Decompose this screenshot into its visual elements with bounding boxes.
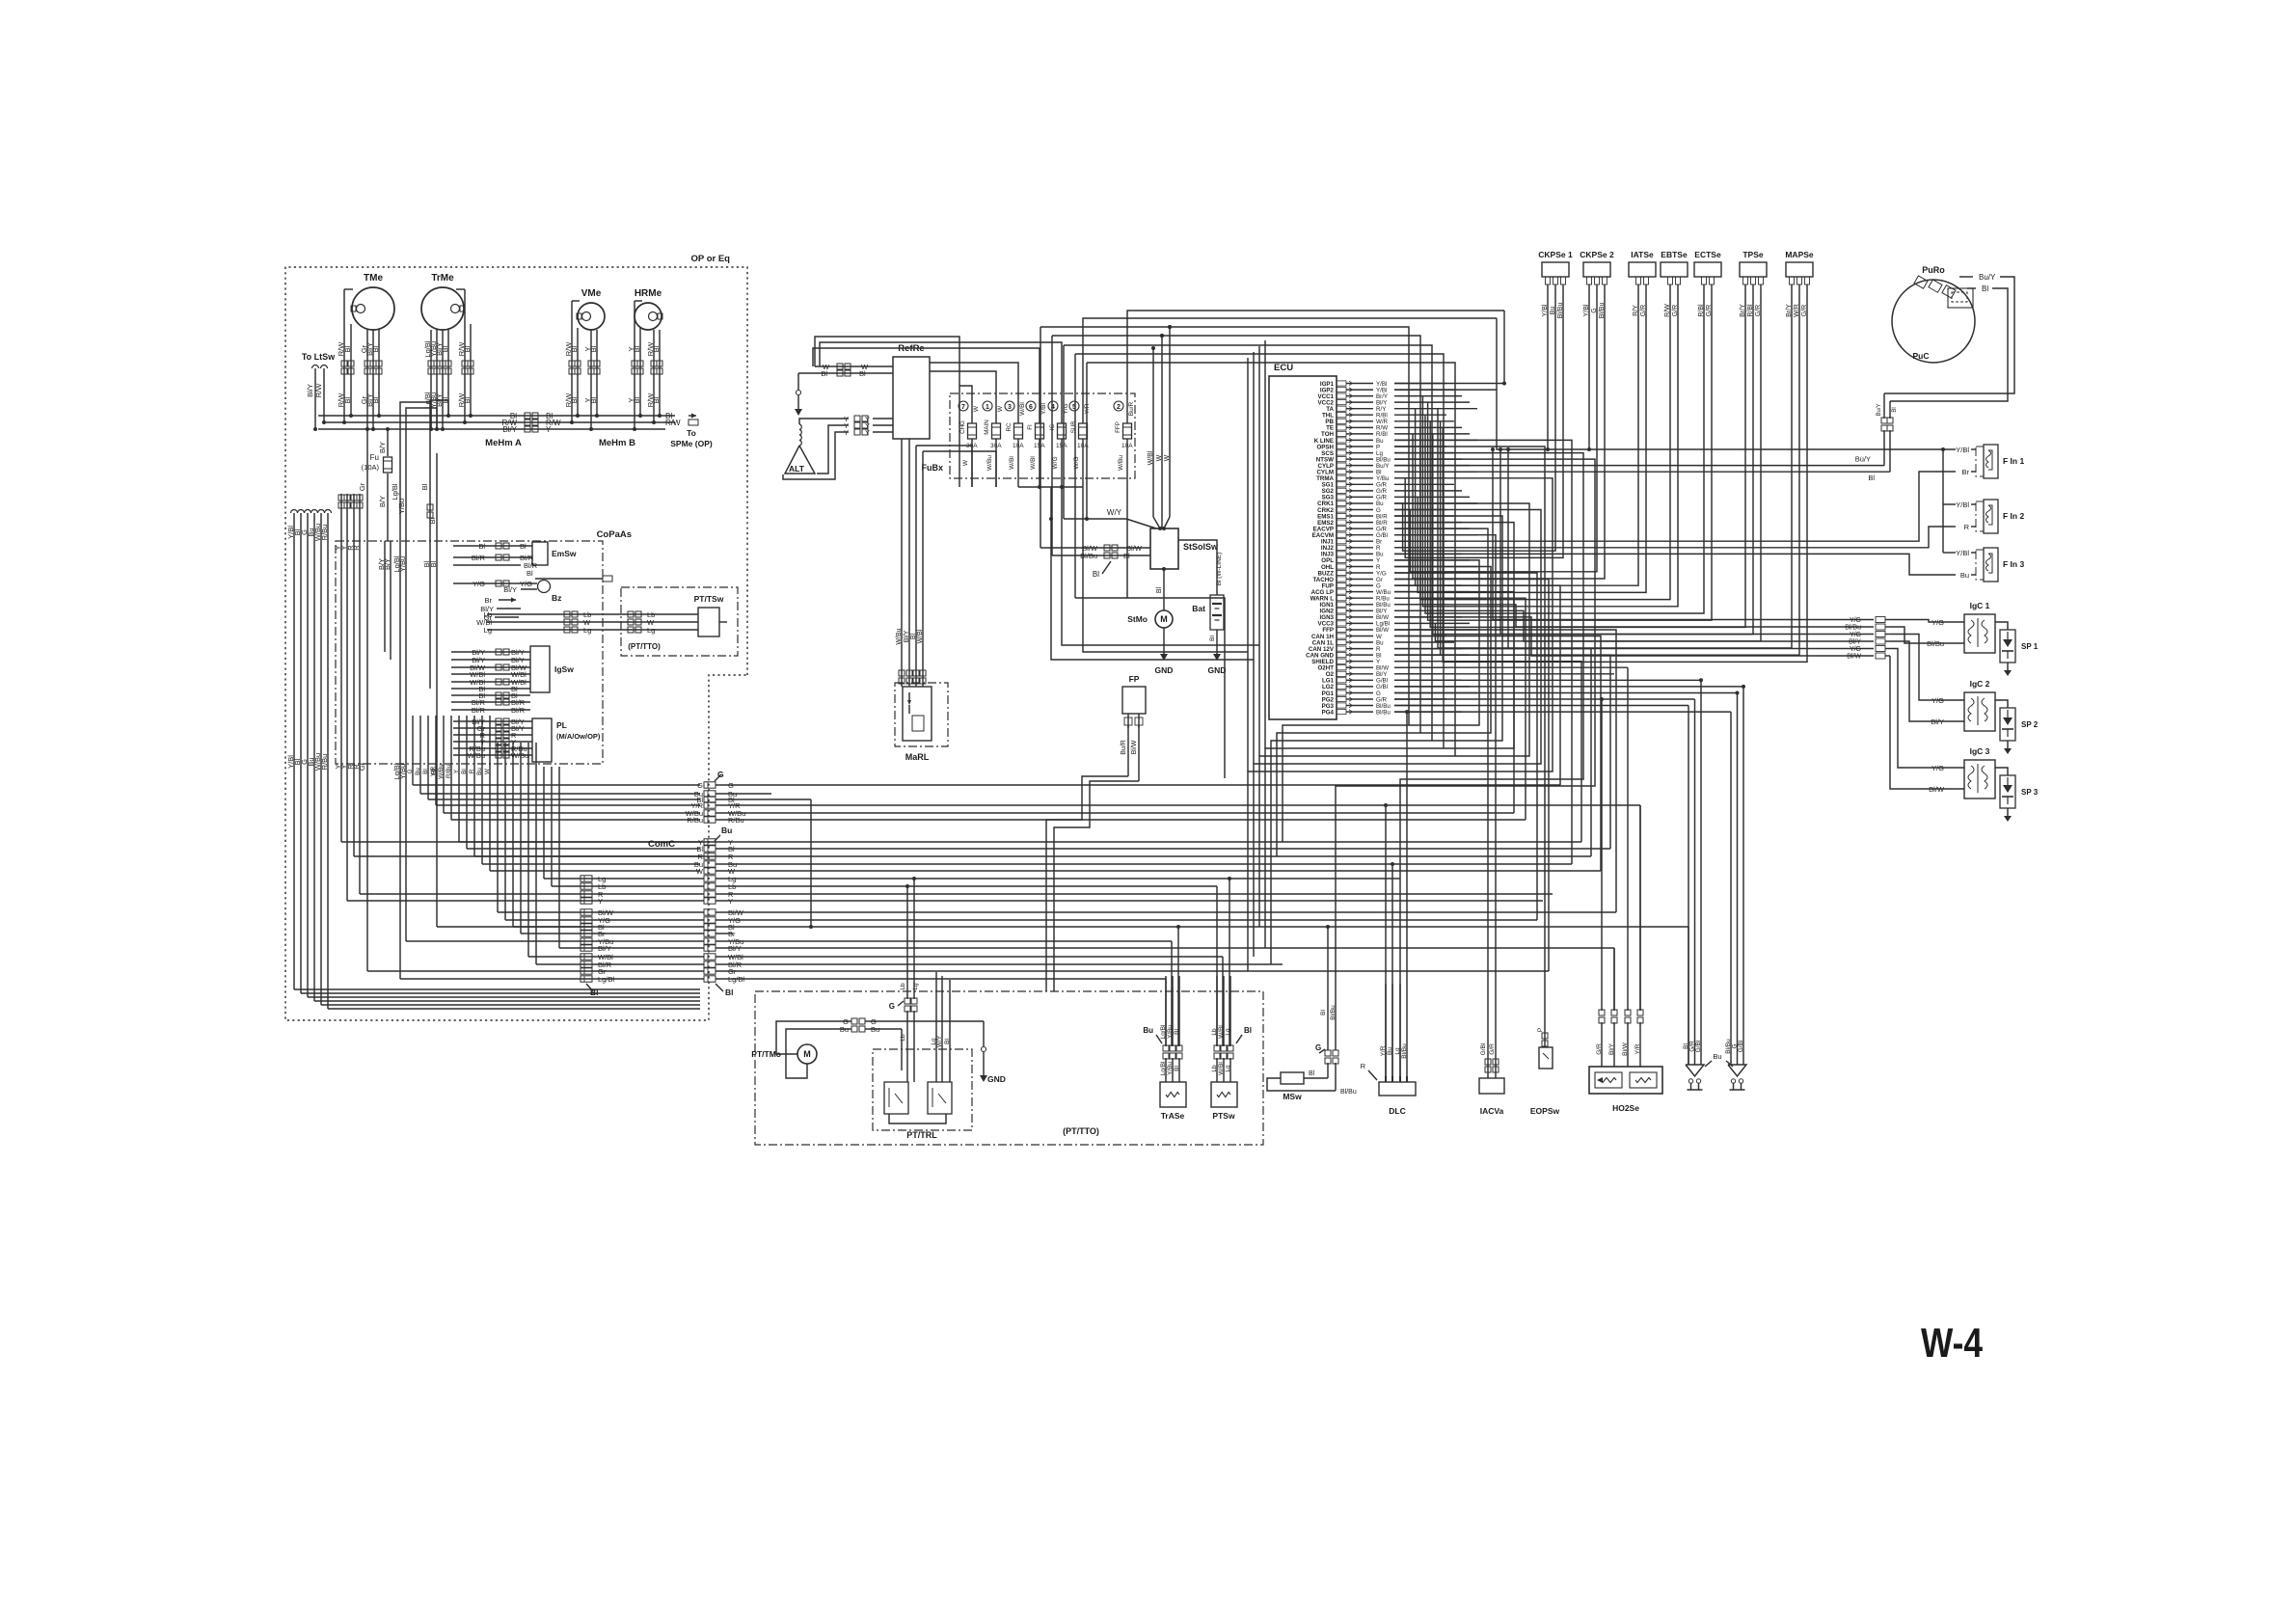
svg-text:R/Bu: R/Bu xyxy=(446,765,452,778)
svg-text:F In 2: F In 2 xyxy=(2003,511,2024,521)
svg-text:W: W xyxy=(997,405,1004,412)
svg-text:Bl: Bl xyxy=(441,345,449,352)
svg-text:Bl/Y: Bl/Y xyxy=(1849,639,1861,646)
svg-text:FI: FI xyxy=(1027,424,1034,430)
svg-text:W/Bu: W/Bu xyxy=(438,764,445,779)
svg-text:Bu/Y: Bu/Y xyxy=(1855,455,1871,464)
svg-text:Bl: Bl xyxy=(633,396,641,403)
svg-text:Bu: Bu xyxy=(1387,1047,1393,1055)
svg-text:Bu/Y: Bu/Y xyxy=(1877,403,1882,416)
svg-text:Bl: Bl xyxy=(944,1039,951,1044)
svg-text:(M/A/Ow/OP): (M/A/Ow/OP) xyxy=(556,732,601,741)
svg-text:W: W xyxy=(1156,454,1163,461)
svg-text:GND: GND xyxy=(1155,665,1174,675)
svg-text:Bl/Bu: Bl/Bu xyxy=(1376,709,1391,716)
svg-text:Lg: Lg xyxy=(484,626,492,635)
svg-text:(10A): (10A) xyxy=(362,463,380,472)
svg-text:R: R xyxy=(1964,523,1970,531)
svg-text:Bl: Bl xyxy=(429,560,438,567)
svg-text:TrASe: TrASe xyxy=(1161,1111,1185,1121)
svg-text:Bl/R: Bl/R xyxy=(511,706,526,715)
svg-text:G: G xyxy=(407,769,414,773)
svg-text:W/Bl: W/Bl xyxy=(1218,1025,1225,1039)
svg-text:MaRL: MaRL xyxy=(905,752,930,762)
svg-text:P: P xyxy=(1537,1028,1544,1032)
svg-text:EBTSe: EBTSe xyxy=(1661,250,1688,259)
svg-text:Bu: Bu xyxy=(1143,1026,1153,1035)
svg-text:EmSw: EmSw xyxy=(552,549,577,558)
svg-text:ECU: ECU xyxy=(1274,363,1293,373)
svg-text:W-4: W-4 xyxy=(1921,1320,1983,1367)
svg-text:Bl: Bl xyxy=(1123,552,1130,560)
svg-text:Bl: Bl xyxy=(570,396,579,403)
svg-text:StSolSw: StSolSw xyxy=(1183,542,1219,552)
svg-text:Bl: Bl xyxy=(520,542,527,551)
svg-text:Bl/R: Bl/R xyxy=(472,554,486,562)
svg-text:Bu: Bu xyxy=(415,768,421,775)
svg-text:W/Bu: W/Bu xyxy=(1118,455,1124,471)
svg-text:FFP: FFP xyxy=(1115,421,1121,433)
svg-text:G/Bl: G/Bl xyxy=(1695,1040,1702,1052)
svg-text:Lg: Lg xyxy=(647,626,655,635)
svg-text:M: M xyxy=(1160,614,1168,624)
svg-text:W: W xyxy=(484,769,491,774)
svg-text:ComC: ComC xyxy=(648,839,675,850)
svg-text:SP 1: SP 1 xyxy=(2021,642,2039,651)
svg-text:Bu/R: Bu/R xyxy=(1128,401,1135,416)
svg-text:SUB: SUB xyxy=(1070,421,1077,434)
svg-text:Bl: Bl xyxy=(859,369,866,378)
svg-text:M: M xyxy=(803,1049,811,1059)
svg-text:PT/TSw: PT/TSw xyxy=(694,594,724,604)
svg-text:Y/G: Y/G xyxy=(1850,632,1861,638)
svg-text:IgC 1: IgC 1 xyxy=(1970,601,1990,610)
svg-text:Fu: Fu xyxy=(370,453,379,462)
svg-text:Bl: Bl xyxy=(1868,474,1875,482)
svg-text:GND: GND xyxy=(1208,665,1227,675)
svg-text:Bl/Bu: Bl/Bu xyxy=(1330,1005,1337,1020)
svg-text:Bl: Bl xyxy=(422,769,429,774)
svg-text:Bl/Y: Bl/Y xyxy=(1608,1042,1615,1055)
svg-text:Bl: Bl xyxy=(463,396,472,403)
svg-text:W/G: W/G xyxy=(1073,457,1080,470)
svg-text:Bl: Bl xyxy=(420,483,429,490)
svg-text:G: G xyxy=(1315,1043,1321,1052)
svg-text:PTSw: PTSw xyxy=(1212,1111,1235,1121)
svg-text:W/Bu: W/Bu xyxy=(511,751,528,760)
svg-text:FuBx: FuBx xyxy=(922,463,944,473)
svg-text:Bl: Bl xyxy=(478,542,485,551)
svg-text:Lb: Lb xyxy=(900,983,906,990)
svg-text:IgC 3: IgC 3 xyxy=(1970,746,1990,756)
svg-text:(PT/TTO): (PT/TTO) xyxy=(1063,1126,1099,1136)
svg-text:Bl/Y: Bl/Y xyxy=(306,384,314,397)
svg-text:IACVa: IACVa xyxy=(1480,1106,1504,1116)
svg-text:Bl: Bl xyxy=(463,345,472,352)
svg-text:EOPSw: EOPSw xyxy=(1530,1106,1560,1116)
svg-text:Y/Bl: Y/Bl xyxy=(1956,501,1969,509)
svg-text:Bl/Y: Bl/Y xyxy=(502,425,517,434)
svg-text:PL: PL xyxy=(556,720,567,730)
svg-text:Y/R: Y/R xyxy=(1634,1043,1641,1054)
svg-text:Bl: Bl xyxy=(633,345,641,352)
svg-text:Y/Bu: Y/Bu xyxy=(397,499,406,514)
svg-text:OP or Eq: OP or Eq xyxy=(691,254,731,264)
svg-text:2: 2 xyxy=(1117,404,1121,411)
svg-text:ECTSe: ECTSe xyxy=(1694,250,1721,259)
svg-text:Bl: Bl xyxy=(589,396,598,403)
svg-text:PG4: PG4 xyxy=(1322,709,1335,716)
svg-text:Bl/W: Bl/W xyxy=(1131,740,1138,754)
svg-text:W/Bu: W/Bu xyxy=(986,455,993,471)
svg-text:B/Y: B/Y xyxy=(378,442,387,453)
svg-text:Gr: Gr xyxy=(358,482,366,491)
svg-text:TMe: TMe xyxy=(364,273,383,284)
svg-text:W/Bl: W/Bl xyxy=(1148,450,1154,465)
svg-text:W/Bl: W/Bl xyxy=(1030,456,1037,470)
svg-text:Y/Bu: Y/Bu xyxy=(1167,1025,1174,1039)
svg-text:Y/Bu: Y/Bu xyxy=(398,556,407,572)
svg-text:Lb: Lb xyxy=(1211,1028,1218,1036)
svg-text:R/W: R/W xyxy=(665,419,681,427)
svg-text:Bl: Bl xyxy=(1244,1026,1252,1035)
svg-text:Bl/Bu: Bl/Bu xyxy=(1401,1043,1408,1059)
svg-text:Y/G: Y/G xyxy=(473,580,485,588)
svg-text:To: To xyxy=(687,428,696,438)
svg-text:Bl/W: Bl/W xyxy=(1622,1042,1629,1056)
svg-text:Bl: Bl xyxy=(1209,636,1216,641)
svg-text:W/Bl: W/Bl xyxy=(917,629,924,643)
svg-text:Bl: Bl xyxy=(1982,284,1988,293)
svg-text:7: 7 xyxy=(961,404,965,411)
svg-text:3: 3 xyxy=(1008,404,1012,411)
svg-text:Bl/R: Bl/R xyxy=(472,706,486,715)
svg-text:Bl: Bl xyxy=(1309,1070,1315,1077)
svg-text:R: R xyxy=(1361,1062,1366,1070)
svg-text:Bl: Bl xyxy=(652,396,661,403)
svg-text:IgC 2: IgC 2 xyxy=(1970,679,1990,689)
svg-text:Lg: Lg xyxy=(583,626,591,635)
svg-text:Bl/Bu: Bl/Bu xyxy=(1845,625,1861,632)
svg-text:DLC: DLC xyxy=(1389,1106,1405,1116)
svg-text:W/Bu: W/Bu xyxy=(896,628,903,644)
svg-text:Bu/R: Bu/R xyxy=(1121,740,1127,755)
svg-text:Y: Y xyxy=(546,425,552,434)
svg-text:R/Bu: R/Bu xyxy=(320,754,329,771)
svg-text:Br: Br xyxy=(1962,468,1970,476)
svg-text:Bl/Y: Bl/Y xyxy=(904,630,910,642)
svg-text:Bu: Bu xyxy=(840,1025,849,1034)
svg-text:Bu: Bu xyxy=(1713,1052,1721,1061)
svg-text:R/Bu: R/Bu xyxy=(687,816,703,825)
svg-text:VMe: VMe xyxy=(581,288,602,299)
svg-text:Y/Bu: Y/Bu xyxy=(398,764,407,779)
svg-text:F In 1: F In 1 xyxy=(2003,456,2024,466)
svg-text:F In 3: F In 3 xyxy=(2003,559,2024,569)
svg-text:R/W: R/W xyxy=(314,383,323,398)
svg-text:ALT: ALT xyxy=(789,464,805,474)
svg-text:W: W xyxy=(1164,454,1171,461)
svg-text:Y/G: Y/G xyxy=(1850,646,1861,653)
svg-text:Bu: Bu xyxy=(871,1025,879,1034)
svg-text:G/R: G/R xyxy=(1489,1043,1496,1055)
svg-text:Lb: Lb xyxy=(900,1034,906,1042)
svg-text:Bl: Bl xyxy=(570,345,579,352)
svg-text:SPMe (OP): SPMe (OP) xyxy=(670,439,713,448)
svg-text:Bz: Bz xyxy=(552,593,561,603)
svg-text:Bat: Bat xyxy=(1192,604,1205,613)
svg-text:W/Bu: W/Bu xyxy=(468,751,485,760)
svg-text:Bl: Bl xyxy=(652,345,661,352)
svg-text:G: G xyxy=(889,1002,895,1011)
svg-text:Bl: Bl xyxy=(371,396,380,403)
svg-text:FP: FP xyxy=(1129,674,1140,684)
svg-text:Bl/Bu: Bl/Bu xyxy=(1340,1089,1357,1096)
svg-text:Lg/Bl: Lg/Bl xyxy=(1160,1024,1167,1039)
svg-text:W/G: W/G xyxy=(1052,457,1059,470)
svg-text:Bl: Bl xyxy=(343,396,352,403)
svg-text:Y/R: Y/R xyxy=(1380,1045,1387,1056)
svg-text:Bl: Bl xyxy=(343,345,352,352)
svg-text:G/Bl: G/Bl xyxy=(1738,1040,1744,1052)
svg-text:SP 2: SP 2 xyxy=(2021,720,2039,729)
svg-text:IATSe: IATSe xyxy=(1631,250,1654,259)
svg-text:Y: Y xyxy=(598,897,603,906)
svg-text:Bl/W: Bl/W xyxy=(1847,654,1861,661)
svg-text:TPSe: TPSe xyxy=(1742,250,1764,259)
svg-text:Bu: Bu xyxy=(476,768,483,775)
svg-text:W/Bl: W/Bl xyxy=(1009,456,1015,470)
svg-text:MSw: MSw xyxy=(1283,1092,1302,1101)
svg-text:Bl: Bl xyxy=(1174,1029,1180,1035)
svg-text:Bl: Bl xyxy=(461,769,468,774)
svg-text:Y/Bl: Y/Bl xyxy=(1956,446,1969,454)
svg-text:Bu: Bu xyxy=(721,826,732,835)
svg-text:(PT/TTO): (PT/TTO) xyxy=(628,642,661,651)
svg-text:W: W xyxy=(962,459,969,466)
svg-text:Lg/Bl: Lg/Bl xyxy=(391,483,399,500)
svg-text:Bl: Bl xyxy=(1093,570,1099,579)
svg-text:R/Bu: R/Bu xyxy=(320,525,329,541)
svg-text:W: W xyxy=(973,405,980,412)
svg-text:IgSw: IgSw xyxy=(554,664,574,674)
svg-text:TrMe: TrMe xyxy=(431,273,454,284)
svg-text:CHG: CHG xyxy=(959,420,966,434)
svg-text:R: R xyxy=(469,769,475,773)
svg-text:MAIN: MAIN xyxy=(984,420,990,434)
svg-text:Bu/Y: Bu/Y xyxy=(1979,273,1996,282)
svg-text:CKPSe 2: CKPSe 2 xyxy=(1580,250,1614,259)
svg-text:Y/G: Y/G xyxy=(520,580,532,588)
svg-text:6: 6 xyxy=(1029,404,1033,411)
svg-text:RC: RC xyxy=(1006,422,1013,431)
svg-text:CKPSe 1: CKPSe 1 xyxy=(1538,250,1573,259)
svg-text:G/R: G/R xyxy=(1596,1043,1603,1055)
svg-text:To LtSw: To LtSw xyxy=(302,352,336,362)
svg-text:W/Y: W/Y xyxy=(1107,508,1122,517)
svg-text:Bl: Bl xyxy=(371,345,380,352)
svg-text:CoPaAs: CoPaAs xyxy=(597,529,632,540)
svg-text:MAPSe: MAPSe xyxy=(1785,250,1814,259)
svg-text:Bl: Bl xyxy=(527,569,533,578)
svg-text:Bl: Bl xyxy=(1320,1010,1327,1015)
svg-text:Y/Bl: Y/Bl xyxy=(1040,402,1047,414)
svg-text:Lg/Bl: Lg/Bl xyxy=(598,975,614,984)
svg-text:Bl: Bl xyxy=(1892,407,1898,412)
svg-text:1: 1 xyxy=(986,404,989,411)
svg-text:Bl/Y: Bl/Y xyxy=(598,944,611,953)
svg-text:W: W xyxy=(696,867,704,876)
svg-text:PT/TRL: PT/TRL xyxy=(906,1130,937,1140)
svg-text:Bl: Bl xyxy=(821,369,827,378)
svg-text:GND: GND xyxy=(987,1074,1006,1084)
svg-text:MeHm B: MeHm B xyxy=(599,438,635,448)
svg-text:Bu: Bu xyxy=(1960,571,1969,580)
svg-text:Bl: Bl xyxy=(910,633,917,639)
svg-text:Bl: Bl xyxy=(1156,586,1163,593)
svg-text:Bl/Y: Bl/Y xyxy=(503,585,517,594)
svg-text:PuC: PuC xyxy=(1913,351,1930,361)
svg-text:B/Y: B/Y xyxy=(378,496,387,507)
svg-text:Bl (W-LINE): Bl (W-LINE) xyxy=(1216,553,1223,586)
svg-text:HRMe: HRMe xyxy=(635,288,662,299)
svg-text:Lg: Lg xyxy=(912,983,919,990)
svg-text:Y/R: Y/R xyxy=(430,766,437,776)
svg-text:Bl: Bl xyxy=(725,988,734,997)
svg-text:B/Y: B/Y xyxy=(383,558,392,570)
svg-text:W/Y: W/Y xyxy=(936,1035,943,1047)
svg-text:W/Bl: W/Bl xyxy=(1019,402,1026,416)
svg-text:PuRo: PuRo xyxy=(1922,265,1945,275)
svg-text:StMo: StMo xyxy=(1127,614,1148,624)
svg-text:SP 3: SP 3 xyxy=(2021,788,2039,797)
svg-text:Bl/Bu: Bl/Bu xyxy=(1080,552,1097,560)
svg-text:Lg: Lg xyxy=(1225,1028,1231,1036)
svg-text:Y/Bl: Y/Bl xyxy=(1956,549,1969,557)
svg-text:Br: Br xyxy=(485,596,493,605)
svg-text:G: G xyxy=(697,781,703,790)
svg-text:MeHm A: MeHm A xyxy=(485,438,522,448)
svg-text:Lg: Lg xyxy=(1394,1047,1401,1055)
svg-text:Bl: Bl xyxy=(589,345,598,352)
svg-text:G/Bl: G/Bl xyxy=(1480,1042,1487,1055)
svg-text:HO2Se: HO2Se xyxy=(1612,1103,1639,1113)
svg-text:Y/G: Y/G xyxy=(1850,617,1861,624)
svg-text:R: R xyxy=(352,545,361,551)
